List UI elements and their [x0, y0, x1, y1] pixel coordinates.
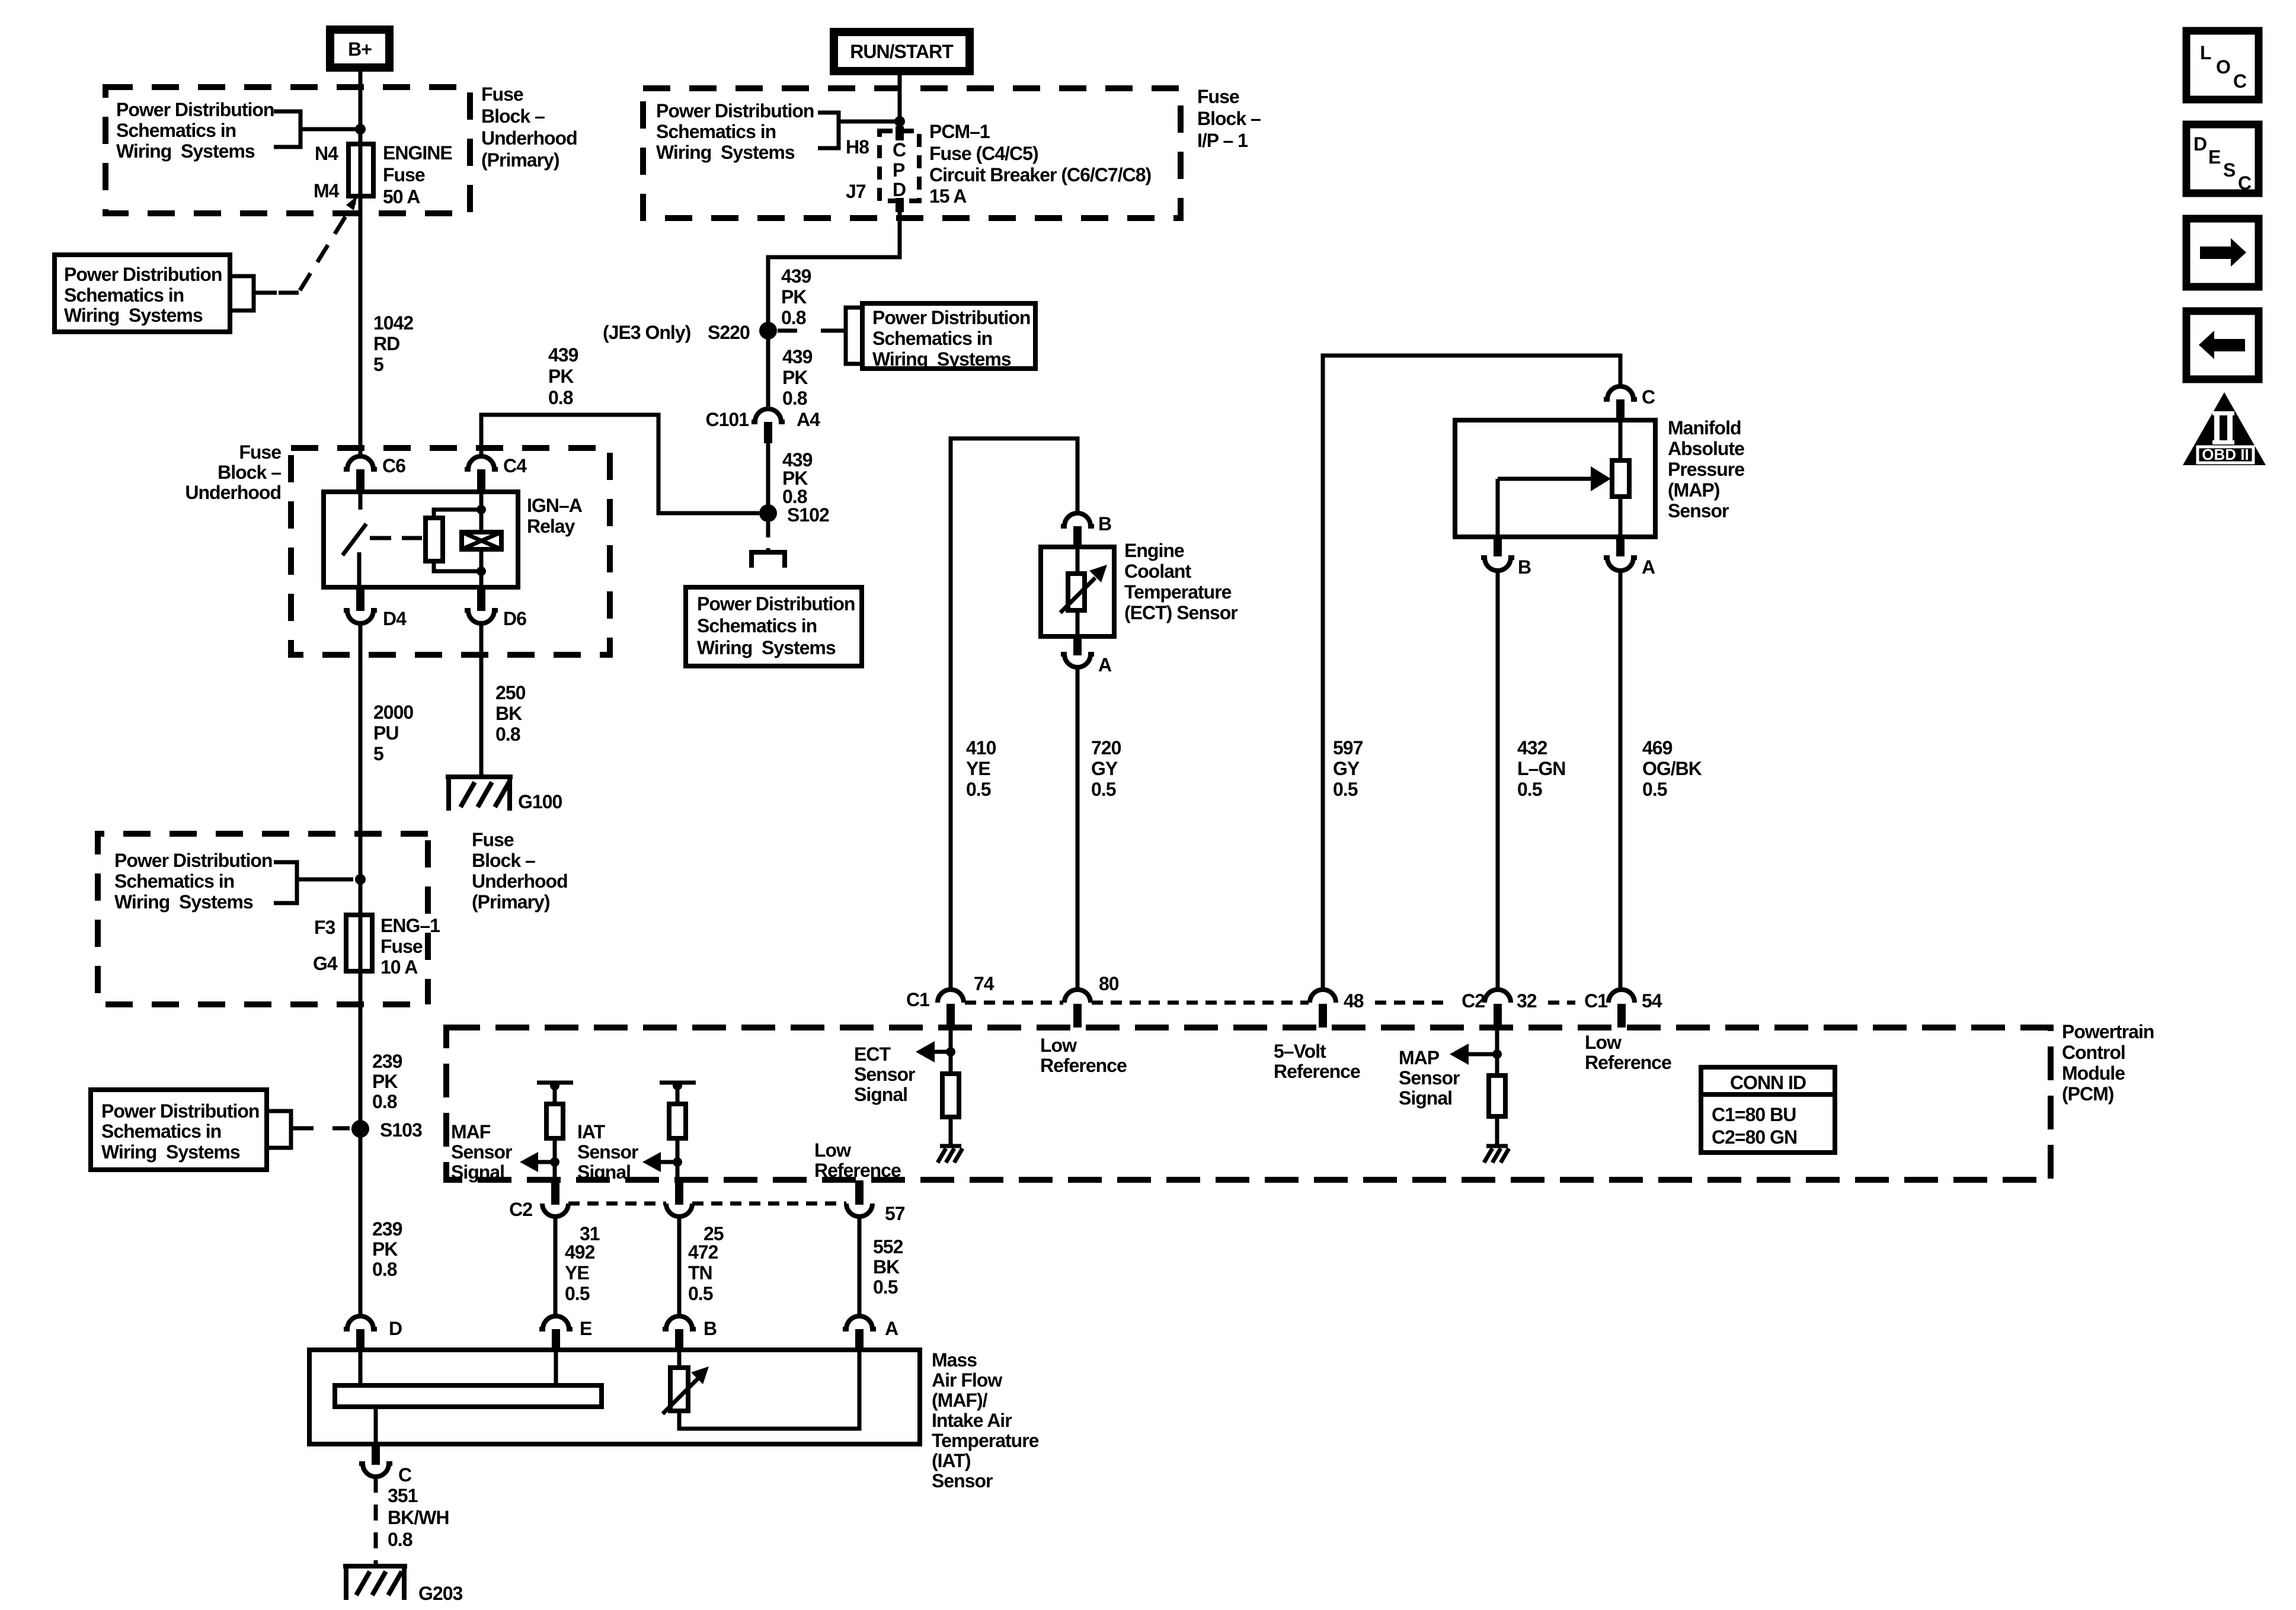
svg-text:I/P – 1: I/P – 1 — [1197, 130, 1248, 151]
off-page connector symbol — [752, 552, 785, 568]
svg-text:IGN–A: IGN–A — [527, 495, 583, 516]
svg-text:C: C — [893, 139, 906, 161]
svg-text:MAF: MAF — [451, 1121, 491, 1142]
connector MAF A — [843, 1316, 898, 1351]
svg-text:(ECT) Sensor: (ECT) Sensor — [1124, 602, 1237, 623]
svg-text:0.5: 0.5 — [1091, 779, 1116, 800]
splice S102 — [759, 504, 829, 526]
svg-text:C4: C4 — [503, 455, 527, 476]
svg-text:57: 57 — [885, 1203, 905, 1224]
svg-text:720: 720 — [1091, 737, 1121, 758]
svg-text:Power Distribution: Power Distribution — [64, 264, 222, 285]
svg-text:Mass: Mass — [932, 1349, 977, 1371]
pin C1-74 — [906, 973, 994, 1028]
svg-text:D4: D4 — [383, 608, 407, 629]
svg-text:E: E — [580, 1318, 592, 1339]
wire label 351 BK/WH 0.8 — [388, 1485, 449, 1550]
svg-text:O: O — [2216, 56, 2230, 78]
connector MAP A — [1604, 537, 1655, 578]
svg-text:Schematics in: Schematics in — [697, 615, 817, 636]
svg-text:PK: PK — [781, 286, 807, 308]
bracket to ENG-1 node — [274, 862, 353, 903]
svg-text:472: 472 — [688, 1241, 718, 1263]
svg-text:1042: 1042 — [373, 312, 413, 334]
svg-text:0.8: 0.8 — [372, 1091, 397, 1112]
svg-text:Underhood: Underhood — [185, 482, 281, 503]
svg-text:Coolant: Coolant — [1124, 561, 1191, 582]
wire S220 to C101 — [766, 339, 770, 409]
MAF sensor signal arrow inside PCM — [451, 1121, 559, 1183]
svg-text:Underhood: Underhood — [472, 870, 568, 892]
IAT internal supply bar — [660, 1081, 696, 1104]
svg-text:0.8: 0.8 — [372, 1259, 397, 1280]
svg-text:Block –: Block – — [481, 105, 545, 127]
wire D4 down to ENG-1 fuse and S103 — [359, 623, 363, 1316]
svg-text:Block –: Block – — [218, 462, 281, 483]
wire C101 to S102 — [766, 443, 770, 505]
connector D6 — [465, 587, 526, 629]
MAP sensor label — [1668, 417, 1744, 521]
svg-text:D6: D6 — [503, 608, 526, 629]
svg-text:Relay: Relay — [527, 516, 575, 537]
svg-text:PK: PK — [372, 1071, 398, 1092]
svg-text:Signal: Signal — [1399, 1087, 1452, 1109]
svg-text:D: D — [2193, 133, 2207, 155]
wire J7 to S220 — [768, 211, 900, 322]
reference box below S102 — [686, 587, 862, 666]
wire above C4 from S102 branch — [481, 415, 759, 513]
legend left arrow icon — [2186, 311, 2259, 379]
svg-text:L–GN: L–GN — [1517, 758, 1565, 779]
svg-text:S102: S102 — [787, 504, 829, 526]
svg-text:G203: G203 — [418, 1583, 462, 1604]
fuse PCM-1 (CPD) dashed box — [846, 126, 919, 212]
svg-text:P: P — [893, 159, 905, 181]
svg-text:10 A: 10 A — [380, 956, 418, 978]
wire PCM 31 to MAF E — [554, 1217, 558, 1316]
svg-text:B: B — [1098, 513, 1111, 534]
wire label 2000 PU 5 — [373, 702, 413, 764]
node N4 junction dot — [355, 124, 366, 135]
fuse block underhood dashed box (relay) — [291, 448, 610, 655]
svg-text:D: D — [893, 179, 906, 200]
MAP potentiometer — [1498, 420, 1629, 537]
wire label 552 BK 0.5 — [873, 1236, 903, 1298]
svg-text:(Primary): (Primary) — [481, 149, 559, 171]
svg-text:RUN/START: RUN/START — [850, 41, 954, 62]
svg-text:Engine: Engine — [1124, 540, 1184, 561]
IAT sensor signal arrow inside PCM — [577, 1121, 682, 1183]
MAP pull resistor — [1489, 1076, 1505, 1145]
svg-text:YE: YE — [565, 1262, 589, 1283]
svg-text:J7: J7 — [846, 181, 866, 202]
svg-text:C6: C6 — [382, 455, 405, 476]
svg-text:A: A — [1642, 556, 1655, 578]
pin C1-54 — [1584, 990, 1662, 1028]
svg-text:BK/WH: BK/WH — [388, 1507, 449, 1528]
svg-text:Fuse: Fuse — [1197, 86, 1239, 107]
pin C2-31 — [509, 1180, 600, 1244]
svg-text:B+: B+ — [348, 39, 372, 60]
svg-text:PU: PU — [373, 722, 398, 744]
wire B+ to ENGINE fuse and C6 — [359, 72, 363, 455]
wire D6 to G100 — [479, 623, 484, 777]
ECT sensor box — [1041, 547, 1114, 636]
svg-text:Sensor: Sensor — [854, 1064, 915, 1085]
svg-text:(MAF)/: (MAF)/ — [932, 1390, 988, 1411]
svg-text:PK: PK — [782, 367, 808, 388]
svg-text:Power Distribution: Power Distribution — [697, 593, 855, 614]
svg-text:Power Distribution: Power Distribution — [656, 100, 814, 121]
svg-text:5: 5 — [373, 354, 383, 375]
wire label 239 PK 0.8 (below S103) — [372, 1218, 402, 1280]
svg-text:Wiring Systems: Wiring Systems — [101, 1141, 240, 1163]
svg-text:0.5: 0.5 — [1517, 779, 1542, 800]
svg-text:Powertrain: Powertrain — [2062, 1021, 2154, 1042]
Low Reference label (pin 54) — [1585, 1032, 1671, 1073]
svg-text:S: S — [2223, 159, 2236, 181]
dashed stub below S102 to off-page symbol — [766, 522, 770, 550]
svg-text:Schematics in: Schematics in — [114, 870, 234, 892]
svg-text:54: 54 — [1642, 990, 1662, 1012]
reference box 2 (solid): Power Distribution Schematics in Wiring Systems — [55, 255, 230, 332]
label Fuse Block - Underhood (Primary) top — [481, 84, 577, 171]
svg-text:Sensor: Sensor — [451, 1141, 512, 1163]
svg-text:Circuit Breaker (C6/C7/C8): Circuit Breaker (C6/C7/C8) — [929, 164, 1151, 185]
svg-text:Signal: Signal — [577, 1161, 631, 1183]
MAP sensor signal arrow inside PCM — [1399, 1028, 1502, 1109]
svg-text:Module: Module — [2062, 1062, 2125, 1084]
svg-text:N4: N4 — [315, 143, 338, 164]
relay switch — [343, 493, 422, 586]
wire label 472 TN 0.5 — [688, 1241, 718, 1304]
svg-text:Fuse: Fuse — [380, 936, 423, 957]
fuse ENGINE 50 A — [314, 142, 452, 207]
svg-text:32: 32 — [1517, 990, 1537, 1012]
svg-text:0.8: 0.8 — [388, 1529, 412, 1550]
IAT internal resistor — [669, 1104, 686, 1138]
connector MAP B — [1481, 537, 1531, 578]
svg-text:Temperature: Temperature — [932, 1430, 1039, 1451]
svg-text:Block –: Block – — [472, 850, 535, 871]
IAT thermistor — [663, 1350, 859, 1429]
svg-text:439: 439 — [548, 344, 578, 366]
legend LOC icon — [2186, 31, 2259, 100]
svg-text:(JE3 Only): (JE3 Only) — [603, 322, 691, 343]
relay label — [527, 495, 583, 537]
bracket from box 4 to S103 — [267, 1111, 350, 1148]
reference text in ENG-1 box — [114, 850, 272, 913]
pin 48 — [1310, 990, 1364, 1028]
connector C4 — [465, 455, 527, 493]
svg-text:0.8: 0.8 — [782, 388, 807, 409]
wire label 439 PK 0.8 (relay branch) — [548, 344, 578, 408]
svg-text:Wiring Systems: Wiring Systems — [656, 142, 795, 163]
connector MAF C (bottom) — [359, 1444, 412, 1486]
pin 25 — [666, 1180, 724, 1244]
svg-text:GY: GY — [1091, 758, 1118, 779]
svg-text:Underhood: Underhood — [481, 127, 577, 149]
svg-text:(IAT): (IAT) — [932, 1450, 971, 1471]
pin 57 — [846, 1180, 905, 1224]
svg-text:OG/BK: OG/BK — [1642, 758, 1702, 779]
svg-text:Manifold: Manifold — [1668, 417, 1741, 438]
fuse PCM-1 labels — [929, 121, 1151, 207]
svg-text:C2: C2 — [1462, 990, 1485, 1012]
bracket from reference text to node N4 — [274, 111, 356, 147]
svg-text:Fuse: Fuse — [472, 829, 514, 850]
svg-text:Fuse (C4/C5): Fuse (C4/C5) — [929, 143, 1038, 164]
splice S220 — [603, 322, 777, 343]
connector D4 — [344, 587, 407, 629]
wire MAP B to PCM C2-32 — [1496, 571, 1500, 990]
Low Reference label (pin 80) — [1040, 1035, 1127, 1076]
connector ECT A — [1061, 636, 1112, 676]
svg-text:351: 351 — [388, 1485, 418, 1506]
svg-text:492: 492 — [565, 1241, 595, 1263]
svg-text:Reference: Reference — [1040, 1055, 1127, 1076]
wire label 720 GY 0.5 — [1091, 737, 1121, 800]
svg-text:Fuse: Fuse — [481, 84, 523, 105]
svg-text:PK: PK — [548, 366, 574, 387]
CONN ID table — [1701, 1067, 1835, 1153]
svg-text:Block –: Block – — [1197, 108, 1261, 129]
svg-text:Wiring Systems: Wiring Systems — [114, 891, 253, 913]
wire label 439 PK 0.8 (above S220) — [781, 265, 811, 328]
pin 80 — [1064, 973, 1119, 1028]
Low Reference label (pin 57) — [814, 1140, 901, 1181]
legend right arrow icon — [2186, 219, 2259, 287]
svg-text:Reference: Reference — [814, 1160, 901, 1181]
svg-text:C2: C2 — [509, 1199, 532, 1220]
svg-text:A: A — [885, 1318, 898, 1339]
svg-text:(Primary): (Primary) — [472, 891, 550, 913]
svg-text:439: 439 — [782, 346, 813, 367]
svg-text:Air Flow: Air Flow — [932, 1369, 1002, 1391]
relay coil — [462, 493, 501, 586]
svg-text:0.5: 0.5 — [873, 1276, 898, 1298]
svg-text:Power Distribution: Power Distribution — [101, 1100, 259, 1122]
svg-text:C1: C1 — [906, 989, 929, 1010]
svg-text:Signal: Signal — [854, 1084, 907, 1105]
PCM dashed box — [446, 1028, 2051, 1180]
MAF internal supply bar — [537, 1081, 573, 1104]
bracket from S220 to reference box — [778, 308, 862, 364]
wire label 439 PK 0.8 (above C101) — [782, 346, 813, 409]
svg-text:Pressure: Pressure — [1668, 459, 1744, 480]
svg-text:(PCM): (PCM) — [2062, 1083, 2114, 1105]
wire 5-volt reference PCM 48 to MAP C — [1323, 356, 1620, 990]
fuse ENG-1 10 A — [313, 915, 440, 978]
svg-text:Reference: Reference — [1585, 1052, 1671, 1073]
legend DESC icon — [2186, 124, 2259, 194]
svg-text:Reference: Reference — [1274, 1061, 1360, 1082]
wire label 410 YE 0.5 — [966, 737, 996, 800]
svg-text:Wiring Systems: Wiring Systems — [697, 637, 836, 658]
svg-text:C1=80 BU: C1=80 BU — [1712, 1104, 1796, 1125]
reference box right of S220 — [862, 303, 1035, 370]
connector MAP C — [1604, 386, 1655, 421]
connector MAF D — [344, 1316, 402, 1351]
svg-text:5: 5 — [373, 743, 383, 764]
svg-text:Wiring Systems: Wiring Systems — [872, 348, 1011, 370]
svg-text:GY: GY — [1333, 758, 1360, 779]
svg-text:E: E — [2208, 146, 2221, 168]
svg-text:Sensor: Sensor — [932, 1470, 993, 1491]
svg-text:15 A: 15 A — [929, 185, 967, 207]
svg-text:Temperature: Temperature — [1124, 581, 1232, 603]
svg-text:C: C — [2238, 172, 2252, 194]
node H8 junction dot — [894, 116, 905, 127]
reference box 4 (solid) left of S103 — [91, 1090, 267, 1170]
connector row dotted line (PCM top) — [965, 1001, 1575, 1005]
svg-text:G100: G100 — [518, 791, 562, 812]
PCM label — [2062, 1021, 2154, 1105]
wire PCM 57 to MAF A — [858, 1217, 862, 1316]
svg-text:48: 48 — [1344, 990, 1364, 1012]
svg-text:CONN ID: CONN ID — [1730, 1072, 1806, 1093]
svg-text:80: 80 — [1099, 973, 1119, 994]
svg-text:0.5: 0.5 — [688, 1283, 713, 1304]
wire label 492 YE 0.5 — [565, 1241, 595, 1304]
wire label 469 OG/BK 0.5 — [1642, 737, 1702, 800]
svg-text:RD: RD — [373, 333, 399, 354]
ECT sensor label — [1124, 540, 1237, 623]
svg-text:Power Distribution: Power Distribution — [114, 850, 272, 871]
svg-text:ENG–1: ENG–1 — [380, 915, 440, 936]
ground G203 — [343, 1566, 462, 1604]
svg-text:469: 469 — [1642, 737, 1673, 758]
wire MAP A to PCM C1-54 — [1619, 571, 1623, 990]
svg-text:C1: C1 — [1584, 990, 1607, 1012]
svg-text:Power Distribution: Power Distribution — [116, 99, 274, 120]
svg-text:Schematics in: Schematics in — [64, 284, 184, 306]
svg-text:Fuse: Fuse — [383, 164, 425, 185]
IGN-A relay box — [324, 492, 518, 587]
ECT pull-up resistor — [942, 1074, 959, 1145]
wire label 239 PK 0.8 (above S103) — [372, 1051, 402, 1112]
svg-text:(MAP): (MAP) — [1668, 479, 1720, 501]
svg-text:0.5: 0.5 — [966, 779, 991, 800]
connector C6 — [344, 455, 405, 493]
fuse block underhood primary dashed box (top) — [105, 87, 470, 213]
svg-text:Wiring Systems: Wiring Systems — [116, 140, 255, 162]
svg-text:C: C — [1642, 386, 1655, 408]
svg-text:250: 250 — [495, 682, 526, 703]
svg-text:0.5: 0.5 — [565, 1283, 590, 1304]
bracket to node H8 — [818, 113, 895, 158]
svg-text:74: 74 — [974, 973, 994, 994]
legend OBD II icon — [2183, 392, 2266, 465]
svg-text:BK: BK — [873, 1256, 900, 1278]
connector C101 A4 — [706, 409, 821, 443]
svg-text:0.8: 0.8 — [548, 387, 573, 408]
reference box text: Power Distribution Schematics in Wiring Systems (top) — [116, 99, 274, 162]
wire ECT B to PCM 74 — [951, 438, 1077, 990]
svg-text:597: 597 — [1333, 737, 1363, 758]
svg-text:L: L — [2200, 42, 2211, 63]
splice S103 — [351, 1119, 422, 1141]
pin C2-32 — [1462, 990, 1537, 1028]
label Fuse Block - Underhood (relay box) — [185, 441, 281, 503]
svg-text:239: 239 — [372, 1051, 402, 1072]
fuse block I/P-1 dashed box — [643, 88, 1181, 218]
svg-text:Low: Low — [1040, 1035, 1077, 1056]
ECT sensor signal arrow inside PCM — [854, 1028, 955, 1105]
wire label 597 GY 0.5 — [1333, 737, 1363, 800]
MAF/IAT sensor box — [309, 1350, 920, 1444]
svg-text:Low: Low — [814, 1140, 851, 1161]
svg-text:Low: Low — [1585, 1032, 1622, 1053]
wire label 250 BK 0.8 — [495, 682, 526, 745]
svg-text:B: B — [1518, 556, 1531, 578]
svg-text:C2=80 GN: C2=80 GN — [1712, 1126, 1797, 1148]
svg-text:PCM–1: PCM–1 — [929, 121, 990, 142]
svg-text:M4: M4 — [314, 180, 340, 201]
reference text in I/P-1 box — [656, 100, 814, 163]
wire RUN/START down to PCM-1 fuse — [898, 75, 902, 139]
svg-text:ECT: ECT — [854, 1044, 891, 1065]
svg-text:0.5: 0.5 — [1333, 779, 1358, 800]
svg-text:G4: G4 — [313, 953, 338, 974]
svg-text:MAP: MAP — [1399, 1047, 1440, 1068]
svg-text:0.8: 0.8 — [495, 724, 520, 745]
connector MAF B — [663, 1316, 717, 1351]
svg-text:TN: TN — [688, 1262, 712, 1283]
svg-text:F3: F3 — [314, 917, 335, 938]
svg-text:Signal: Signal — [451, 1161, 504, 1183]
svg-text:IAT: IAT — [577, 1121, 606, 1142]
svg-text:Intake Air: Intake Air — [932, 1410, 1012, 1431]
connector MAF E — [539, 1316, 592, 1351]
svg-text:Power Distribution: Power Distribution — [872, 307, 1030, 328]
svg-text:5–Volt: 5–Volt — [1274, 1041, 1326, 1062]
wire label 439 PK 0.8 (above S102) — [782, 449, 813, 507]
svg-text:A4: A4 — [797, 409, 820, 430]
svg-text:432: 432 — [1517, 737, 1547, 758]
svg-text:S103: S103 — [380, 1119, 422, 1141]
dashed ground wire 351 — [374, 1477, 378, 1565]
svg-text:Sensor: Sensor — [577, 1141, 638, 1163]
dashed fuse-pull line to ENGINE fuse — [279, 196, 357, 293]
ECT thermistor — [1060, 547, 1107, 636]
svg-text:S220: S220 — [708, 322, 750, 343]
svg-text:Schematics in: Schematics in — [872, 328, 992, 349]
svg-text:A: A — [1098, 654, 1112, 676]
label Fuse Block - Underhood (Primary) at ENG-1 — [472, 829, 568, 913]
svg-text:BK: BK — [495, 703, 522, 724]
label Fuse Block - I/P - 1 — [1197, 86, 1261, 151]
svg-text:Absolute: Absolute — [1668, 438, 1744, 459]
svg-text:PK: PK — [372, 1238, 398, 1260]
ground G100 — [446, 777, 562, 812]
svg-text:Sensor: Sensor — [1668, 500, 1729, 521]
svg-text:0.5: 0.5 — [1642, 779, 1667, 800]
svg-text:Schematics in: Schematics in — [101, 1121, 221, 1142]
svg-text:Sensor: Sensor — [1399, 1067, 1460, 1089]
connector row dotted line (PCM bottom C2) — [568, 1202, 846, 1206]
MAF sensor label — [932, 1349, 1039, 1491]
wire label 432 L-GN 0.5 — [1517, 737, 1565, 800]
svg-text:B: B — [703, 1318, 717, 1339]
RUN/START terminal — [834, 32, 970, 71]
svg-text:439: 439 — [781, 265, 811, 287]
svg-text:H8: H8 — [846, 136, 869, 158]
svg-text:C: C — [2233, 71, 2247, 92]
svg-text:C: C — [398, 1464, 412, 1486]
svg-text:552: 552 — [873, 1236, 903, 1257]
svg-text:ENGINE: ENGINE — [383, 142, 452, 164]
